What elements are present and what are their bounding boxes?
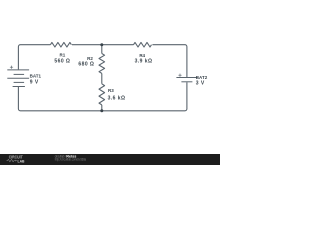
svg-text:BAT1: BAT1: [30, 74, 42, 79]
svg-text:680 Ω: 680 Ω: [78, 62, 94, 68]
svg-text:BAT2: BAT2: [196, 75, 208, 80]
svg-text:560 Ω: 560 Ω: [54, 59, 70, 65]
svg-text:http://circuitlab.com/c/v338a: http://circuitlab.com/c/v338a: [55, 157, 86, 161]
svg-text:LAB: LAB: [18, 158, 25, 163]
svg-text:9 V: 9 V: [30, 80, 39, 86]
svg-text:3.9 kΩ: 3.9 kΩ: [135, 59, 153, 65]
svg-text:3.6 kΩ: 3.6 kΩ: [108, 95, 126, 101]
svg-text:R1: R1: [60, 53, 66, 58]
svg-text:R2: R2: [87, 56, 93, 61]
svg-text:3 V: 3 V: [196, 80, 205, 86]
svg-text:R3: R3: [108, 88, 114, 93]
svg-text:R4: R4: [139, 53, 145, 58]
